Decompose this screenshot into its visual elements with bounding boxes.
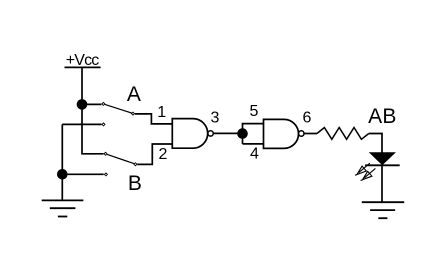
gate U1 output bubble <box>208 131 213 136</box>
wire ground rail vertical <box>61 124 63 200</box>
power +Vcc rail <box>65 66 101 68</box>
switch A <box>102 102 135 126</box>
LED D1 emission arrow 1 <box>355 163 370 175</box>
svg-text:6: 6 <box>302 110 311 127</box>
node junction at U2 inputs <box>237 128 248 139</box>
gate U2 NAND body <box>264 119 299 148</box>
gate U1 NAND body <box>172 119 207 149</box>
wire junction to U2 pin 5 <box>243 124 264 144</box>
svg-text:1: 1 <box>157 104 166 121</box>
node junction on Vcc line <box>77 99 88 110</box>
svg-text:B: B <box>128 172 142 195</box>
svg-text:A: A <box>127 83 141 106</box>
wire U2 output to resistor <box>304 133 317 135</box>
wire switch A common to gate U1 pin 1 <box>135 114 172 124</box>
switch B <box>104 152 137 176</box>
wire LED to ground <box>381 165 383 202</box>
wire switch B common to gate U1 pin 2 <box>137 144 172 164</box>
LED D1 anode triangle <box>370 153 395 165</box>
gate U2 output bubble <box>299 131 304 136</box>
ground left <box>42 200 84 216</box>
wire Vcc vertical to switch B <box>82 67 104 153</box>
svg-text:2: 2 <box>159 146 168 163</box>
wire switch A lower throw to ground rail <box>62 123 101 125</box>
svg-text:4: 4 <box>250 146 259 163</box>
svg-text:5: 5 <box>249 103 258 120</box>
wire U1 output to junction <box>213 132 242 134</box>
wire resistor to LED <box>369 134 382 153</box>
LED D1 emission arrow 2 <box>361 168 376 180</box>
LED D1 cathode bar <box>365 164 400 166</box>
svg-text:3: 3 <box>210 110 219 127</box>
ground right <box>362 202 404 218</box>
svg-text:AB: AB <box>368 105 397 128</box>
resistor R1 <box>317 128 369 140</box>
node junction on ground rail <box>57 169 68 180</box>
wire junction to U2 pin 4 <box>243 143 264 145</box>
wire junction to switch A pole <box>82 103 102 105</box>
wire junction to switch B lower throw <box>62 173 103 175</box>
